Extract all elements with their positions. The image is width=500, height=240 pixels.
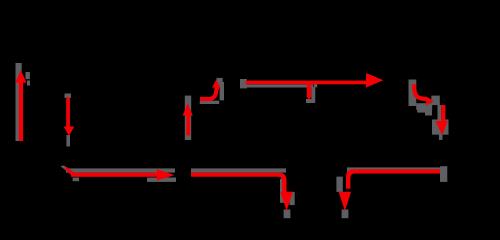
gray below L1 tip: [284, 210, 291, 219]
arrow L2 head (down): [339, 192, 352, 211]
gray corner blob right end of K2: [440, 166, 447, 182]
gray cap above arrow B: [65, 94, 72, 99]
arrow G head (right): [366, 73, 383, 88]
gray below inline head of K1a: [147, 178, 176, 182]
arrow A shaft: [19, 82, 23, 141]
arrow B shaft: [66, 97, 70, 127]
gray line K1a: [66, 168, 175, 172]
gray blob at G start: [240, 79, 247, 88]
gray right of L1 head: [290, 192, 295, 205]
gray line K1b: [191, 168, 286, 172]
arrow J shaft: [441, 105, 445, 121]
gray nub right of A head: [26, 72, 30, 79]
red line K1b with corner down to L1: [191, 173, 287, 192]
gray underlay network: [16, 63, 449, 218]
gray bar under arrow A: [16, 63, 22, 141]
red arrows: [15, 70, 448, 211]
gray around arrow J head: [432, 120, 449, 135]
arrow B head (down): [64, 127, 75, 137]
gray blob left of L2 shaft: [336, 177, 342, 192]
red line K2 with corner down to L2: [346, 169, 440, 188]
gray nub right of G descender top: [314, 83, 318, 87]
gray right of I head: [431, 96, 440, 106]
gray right side of E curve: [220, 82, 224, 100]
gray line K2: [347, 167, 440, 171]
arrow L1 head (down): [280, 192, 293, 211]
gray fringe left of L1 shaft: [280, 179, 284, 203]
long arrow G line: [246, 81, 368, 85]
arrow I head (right): [426, 96, 434, 105]
curved arrow E: [200, 86, 217, 99]
gray below E horizontal: [200, 101, 220, 104]
red diagonal at junction C: [64, 167, 76, 177]
red descender of G: [307, 84, 312, 97]
curved arrow I: [414, 84, 427, 99]
gray below G descender: [306, 99, 315, 103]
gray bar under arrow F: [185, 96, 191, 140]
gray stub below junction C: [73, 178, 79, 182]
gray top-right of E tip: [217, 78, 223, 86]
inline head on K1a (right): [157, 169, 175, 181]
gray right of G descender: [311, 87, 315, 99]
gray bar under curve I: [409, 80, 417, 107]
gray diagonal at junction C: [61, 165, 73, 173]
gray tail below arrow B: [66, 135, 70, 147]
red line K1a: [71, 173, 158, 177]
gray below curve I: [416, 103, 432, 110]
gray below L2 tip: [342, 210, 349, 219]
arrow J head (down): [435, 121, 447, 135]
arrow F shaft: [186, 115, 190, 135]
arrow F head (up): [183, 103, 193, 116]
gray under line G: [240, 85, 313, 88]
arrow E head (up): [212, 80, 220, 88]
arrow A head (up): [15, 70, 26, 83]
